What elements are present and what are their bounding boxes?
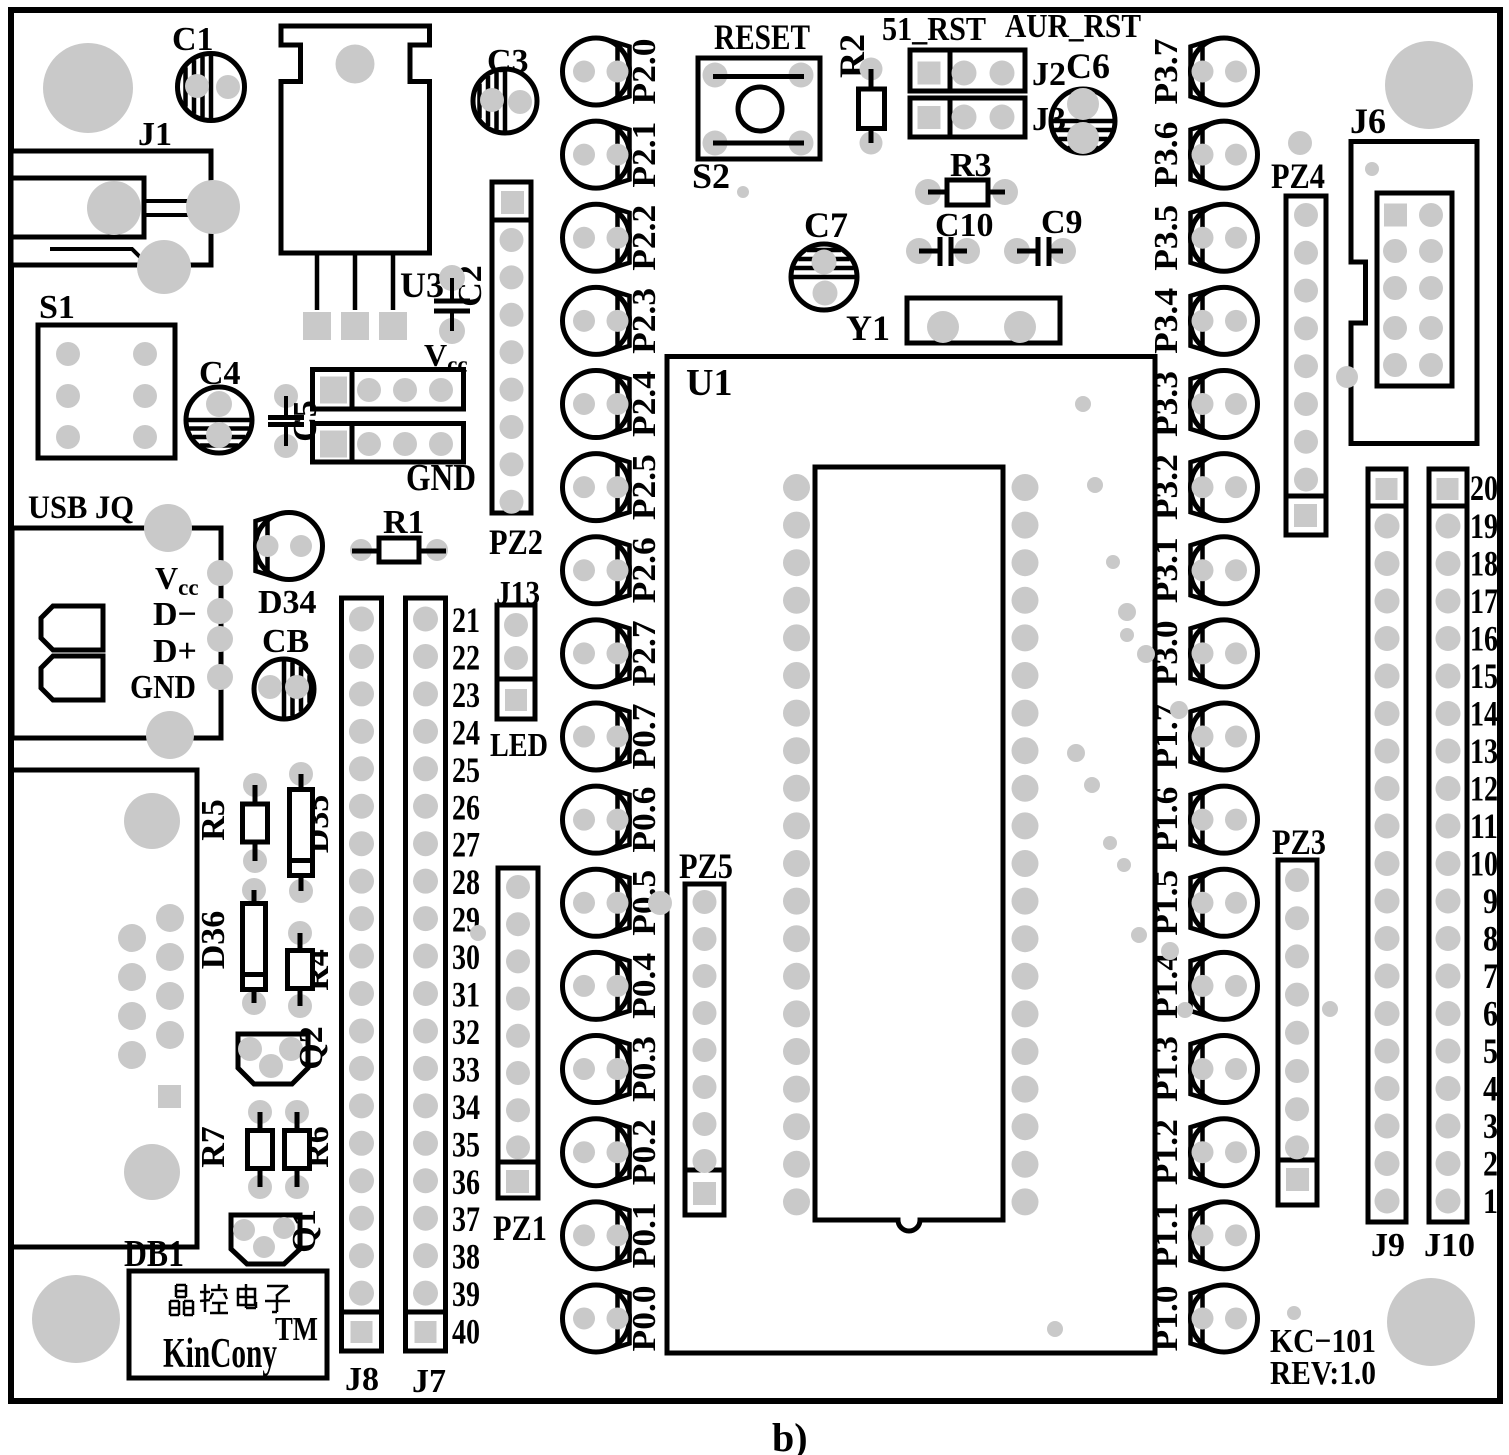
svg-text:P2.1: P2.1 <box>626 122 663 188</box>
LED P1.1 <box>1191 1202 1258 1269</box>
header PZ3 <box>1278 860 1317 1205</box>
svg-text:7: 7 <box>1483 956 1498 996</box>
svg-text:P3.4: P3.4 <box>1148 288 1185 354</box>
svg-text:PZ2: PZ2 <box>489 522 543 562</box>
svg-text:GND: GND <box>406 457 476 499</box>
svg-text:14: 14 <box>1470 694 1498 734</box>
svg-text:PZ1: PZ1 <box>493 1208 547 1248</box>
capacitor CB <box>254 659 314 719</box>
svg-text:J10: J10 <box>1424 1227 1475 1264</box>
LED P3.0 <box>1191 620 1258 687</box>
svg-text:28: 28 <box>452 862 480 902</box>
jumper J3 <box>910 98 1025 137</box>
svg-text:1: 1 <box>1483 1181 1498 1221</box>
LED P3.7 <box>1191 38 1258 105</box>
connector J6 <box>1351 142 1477 444</box>
LED P3.3 <box>1191 371 1258 438</box>
transistor Q2 <box>238 1034 308 1084</box>
svg-text:22: 22 <box>452 637 480 677</box>
LED P3.6 <box>1191 121 1258 188</box>
mounting hole bottom-left <box>32 1275 120 1363</box>
LED P1.3 <box>1191 1036 1258 1103</box>
svg-text:34: 34 <box>452 1087 480 1127</box>
svg-text:P2.6: P2.6 <box>626 537 663 603</box>
capacitor C5 <box>274 384 298 408</box>
header J7 <box>406 598 446 1351</box>
resistor R3 <box>915 179 941 205</box>
U1 pin pads left column <box>783 474 810 1215</box>
svg-text:U1: U1 <box>686 362 732 404</box>
GND header <box>313 424 464 463</box>
resistor R1 <box>350 539 372 561</box>
svg-text:51_RST: 51_RST <box>882 11 986 48</box>
svg-text:30: 30 <box>452 937 480 977</box>
svg-text:12: 12 <box>1470 769 1498 809</box>
svg-text:R1: R1 <box>383 504 425 541</box>
connector J1 <box>11 151 211 265</box>
pin numbers 20-1 <box>1470 468 1498 1221</box>
LED P1.0 <box>1191 1285 1258 1352</box>
capacitor C7 <box>791 244 857 310</box>
svg-text:9: 9 <box>1483 881 1498 921</box>
connector DB1 <box>11 770 197 1247</box>
diode D35 <box>289 762 313 786</box>
diode D34 <box>256 513 323 580</box>
capacitor C1 <box>178 54 245 121</box>
svg-text:J8: J8 <box>345 1361 379 1398</box>
svg-text:R5: R5 <box>195 799 232 841</box>
svg-text:P3.7: P3.7 <box>1148 39 1185 105</box>
svg-text:P2.2: P2.2 <box>626 205 663 271</box>
drill dots <box>470 131 1358 1337</box>
svg-text:USB JQ: USB JQ <box>28 490 134 526</box>
svg-text:KinCony: KinCony <box>163 1331 277 1377</box>
IC U1 box <box>667 357 1155 1354</box>
transistor Q1 <box>231 1215 300 1264</box>
Vcc header <box>313 370 464 410</box>
svg-text:2: 2 <box>1483 1144 1498 1184</box>
LED P3.1 <box>1191 537 1258 604</box>
svg-text:P3.5: P3.5 <box>1148 205 1185 271</box>
header PZ4 <box>1286 196 1326 535</box>
svg-text:PZ3: PZ3 <box>1272 822 1326 862</box>
capacitor C4 <box>186 387 252 453</box>
svg-text:Q2: Q2 <box>293 1026 330 1069</box>
mounting hole top-right <box>1385 41 1473 129</box>
mounting hole top-left <box>43 43 133 133</box>
resistor R6 <box>285 1100 309 1124</box>
crystal Y1 <box>907 298 1060 343</box>
LED P0.6 <box>563 786 630 853</box>
svg-text:P2.5: P2.5 <box>626 454 663 520</box>
svg-text:R7: R7 <box>195 1126 232 1168</box>
pushbutton S2 <box>698 58 820 159</box>
svg-text:C5: C5 <box>287 400 324 442</box>
U1 socket outline <box>815 467 1003 1231</box>
svg-text:C6: C6 <box>1066 46 1110 86</box>
header J10 <box>1429 469 1467 1222</box>
pin numbers 21-40 <box>452 600 480 1352</box>
svg-text:32: 32 <box>452 1012 480 1052</box>
svg-text:20: 20 <box>1470 468 1498 508</box>
svg-text:19: 19 <box>1470 506 1498 546</box>
capacitor C3 <box>473 69 537 133</box>
LED P0.4 <box>563 952 630 1019</box>
svg-text:36: 36 <box>452 1162 480 1202</box>
capacitor C9 <box>1004 238 1030 264</box>
svg-text:J9: J9 <box>1371 1227 1405 1264</box>
LED P2.6 <box>563 537 630 604</box>
svg-text:b): b) <box>772 1415 808 1455</box>
svg-text:S1: S1 <box>39 289 75 326</box>
svg-text:P0.2: P0.2 <box>626 1119 663 1185</box>
LED P2.4 <box>563 371 630 438</box>
svg-text:26: 26 <box>452 787 480 827</box>
svg-text:PZ5: PZ5 <box>679 846 733 886</box>
LED P2.7 <box>563 620 630 687</box>
svg-text:P2.3: P2.3 <box>626 288 663 354</box>
svg-text:24: 24 <box>452 712 480 752</box>
USB connector <box>12 528 221 738</box>
svg-text:P0.0: P0.0 <box>626 1285 663 1351</box>
capacitor C6 <box>1051 89 1115 153</box>
svg-text:C7: C7 <box>804 205 848 245</box>
svg-text:D−: D− <box>153 596 197 633</box>
svg-text:33: 33 <box>452 1049 480 1089</box>
svg-text:P0.7: P0.7 <box>626 704 663 770</box>
svg-text:39: 39 <box>452 1274 480 1314</box>
svg-text:17: 17 <box>1470 581 1498 621</box>
capacitor C10 <box>906 238 932 264</box>
header PZ2 <box>492 182 531 513</box>
svg-text:5: 5 <box>1483 1031 1498 1071</box>
resistor R5 <box>243 773 267 797</box>
svg-text:P0.6: P0.6 <box>626 787 663 853</box>
LED P1.5 <box>1191 869 1258 936</box>
LED P0.7 <box>563 703 630 770</box>
LED P2.1 <box>563 121 630 188</box>
svg-text:J6: J6 <box>1350 101 1386 141</box>
svg-text:CB: CB <box>262 623 309 660</box>
svg-text:16: 16 <box>1470 619 1498 659</box>
svg-text:PZ4: PZ4 <box>1271 156 1325 196</box>
jumper J13 <box>497 605 535 719</box>
svg-text:C9: C9 <box>1041 204 1083 241</box>
svg-text:Q1: Q1 <box>286 1209 323 1252</box>
svg-text:4: 4 <box>1483 1069 1498 1109</box>
LED P0.1 <box>563 1202 630 1269</box>
svg-text:40: 40 <box>452 1312 480 1352</box>
LED P0.5 <box>563 869 630 936</box>
logo text zi <box>265 1286 290 1312</box>
header PZ1 <box>498 868 538 1198</box>
svg-text:P0.4: P0.4 <box>626 953 663 1019</box>
LED P1.4 <box>1191 952 1258 1019</box>
LED P1.2 <box>1191 1119 1258 1186</box>
svg-text:AUR_RST: AUR_RST <box>1005 8 1141 45</box>
svg-text:35: 35 <box>452 1124 480 1164</box>
svg-text:S2: S2 <box>692 156 730 196</box>
capacitor C2 <box>439 265 465 291</box>
svg-text:25: 25 <box>452 750 480 790</box>
svg-text:D36: D36 <box>195 911 232 970</box>
svg-text:38: 38 <box>452 1237 480 1277</box>
LED P0.2 <box>563 1119 630 1186</box>
svg-text:P2.0: P2.0 <box>626 39 663 105</box>
resistor R2 <box>860 58 883 81</box>
svg-text:D34: D34 <box>258 584 317 621</box>
svg-text:3: 3 <box>1483 1106 1498 1146</box>
svg-text:15: 15 <box>1470 656 1498 696</box>
LED P2.3 <box>563 287 630 354</box>
svg-text:37: 37 <box>452 1199 480 1239</box>
header J8 <box>342 598 382 1351</box>
LED P0.0 <box>563 1285 630 1352</box>
svg-text:P3.6: P3.6 <box>1148 122 1185 188</box>
svg-text:LED: LED <box>490 727 548 764</box>
voltage regulator U3 <box>281 26 430 253</box>
LED P1.7 <box>1191 703 1258 770</box>
logo text dian <box>238 1284 256 1308</box>
svg-text:8: 8 <box>1483 919 1498 959</box>
mounting hole bottom-right <box>1387 1278 1475 1366</box>
resistor R7 <box>248 1100 272 1124</box>
LED P3.5 <box>1191 204 1258 271</box>
LED P2.0 <box>563 38 630 105</box>
logo box <box>129 1271 327 1378</box>
U1 pin pads right column <box>1012 474 1039 1215</box>
logo text kong <box>200 1284 228 1313</box>
logo text jing <box>170 1285 193 1315</box>
LED P2.2 <box>563 204 630 271</box>
svg-text:REV:1.0: REV:1.0 <box>1270 1355 1376 1392</box>
jumper J2 <box>910 50 1025 91</box>
svg-text:21: 21 <box>452 600 480 640</box>
svg-text:23: 23 <box>452 675 480 715</box>
svg-text:11: 11 <box>1470 806 1498 846</box>
svg-text:27: 27 <box>452 825 480 865</box>
svg-text:18: 18 <box>1470 544 1498 584</box>
LED P3.4 <box>1191 287 1258 354</box>
header J9 <box>1368 469 1406 1222</box>
LED P0.3 <box>563 1036 630 1103</box>
diode D36 <box>242 878 266 902</box>
svg-text:TM: TM <box>275 1311 318 1348</box>
svg-text:P2.7: P2.7 <box>626 620 663 686</box>
svg-text:Y1: Y1 <box>846 308 890 348</box>
svg-text:GND: GND <box>130 669 196 706</box>
header PZ5 <box>685 884 724 1215</box>
svg-text:10: 10 <box>1470 844 1498 884</box>
LED P1.6 <box>1191 786 1258 853</box>
svg-text:J1: J1 <box>138 116 172 153</box>
LED P3.2 <box>1191 454 1258 521</box>
svg-text:RESET: RESET <box>714 17 810 57</box>
svg-text:D+: D+ <box>153 633 197 670</box>
svg-text:J7: J7 <box>412 1363 446 1400</box>
svg-text:6: 6 <box>1483 994 1498 1034</box>
svg-text:P2.4: P2.4 <box>626 371 663 437</box>
svg-text:P0.1: P0.1 <box>626 1202 663 1268</box>
svg-text:P0.3: P0.3 <box>626 1036 663 1102</box>
svg-text:31: 31 <box>452 975 480 1015</box>
resistor R4 <box>288 921 312 945</box>
switch S1 <box>38 325 175 458</box>
LED P2.5 <box>563 454 630 521</box>
svg-text:J2: J2 <box>1032 56 1066 93</box>
svg-text:13: 13 <box>1470 731 1498 771</box>
